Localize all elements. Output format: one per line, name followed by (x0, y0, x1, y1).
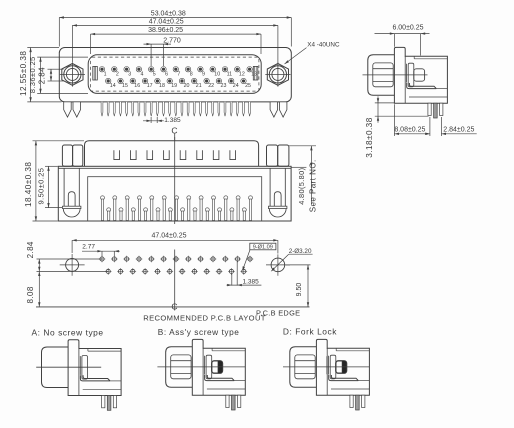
svg-text:8: 8 (190, 71, 193, 77)
svg-text:2.770: 2.770 (163, 37, 181, 44)
dimension 12.55±0.38 flange height (19, 48, 62, 102)
svg-text:4.80(5.80): 4.80(5.80) (297, 168, 306, 205)
rear view right board-lock fork (269, 168, 287, 217)
dimension 1.385 pad offset (227, 262, 262, 287)
svg-text:5: 5 (153, 71, 156, 77)
svg-text:18.40±0.38: 18.40±0.38 (24, 162, 33, 207)
svg-text:38.96±0.25: 38.96±0.25 (148, 27, 183, 34)
svg-text:17: 17 (147, 83, 153, 89)
svg-text:3.18±0.38: 3.18±0.38 (365, 117, 374, 157)
side view connector (top right) (363, 47, 448, 118)
dimension 18.40±0.38 overall depth (24, 141, 84, 221)
dimension 8.08 row to pcb edge (26, 271, 40, 307)
pcb layout right mounting hole 2 (266, 254, 290, 275)
centre line symbol below front view (171, 125, 177, 140)
svg-text:24: 24 (233, 83, 239, 89)
rear view left hex screw head (62, 145, 82, 166)
svg-text:53.04±0.38: 53.04±0.38 (151, 10, 186, 17)
svg-text:1: 1 (104, 71, 107, 77)
rear view body outline (58, 166, 291, 221)
dimension 4.80(5.80) rear height (291, 146, 312, 205)
svg-text:14: 14 (110, 83, 116, 89)
svg-text:2: 2 (116, 71, 119, 77)
front view right board-lock fork (270, 102, 287, 117)
front view right polarizing key bar (253, 66, 257, 80)
dimension 2.770 pin pitch (144, 37, 181, 66)
svg-text:8.08: 8.08 (26, 286, 35, 303)
svg-text:12: 12 (239, 71, 245, 77)
svg-text:22: 22 (208, 83, 214, 89)
svg-text:9.50±0.25: 9.50±0.25 (37, 168, 46, 205)
front view left polarizing key bar (93, 66, 98, 80)
svg-text:9: 9 (202, 71, 205, 77)
svg-text:2.77: 2.77 (82, 244, 95, 251)
svg-text:D: Fork Lock: D: Fork Lock (283, 327, 337, 337)
svg-text:21: 21 (196, 83, 202, 89)
svg-text:15: 15 (122, 83, 128, 89)
dimension 2.77 pad pitch (82, 244, 120, 256)
dimension 47.04±0.25 mounting hole span (72, 18, 278, 62)
svg-text:20: 20 (184, 83, 190, 89)
dimension 6.00±0.25 face to boss (375, 25, 430, 56)
front view left board-lock fork (64, 102, 81, 117)
svg-text:3: 3 (128, 71, 131, 77)
dimension 9.50 hole to pcb edge (286, 265, 311, 307)
svg-text:C: C (171, 125, 177, 135)
dimension 3.18±0.38 pin length (365, 96, 429, 157)
dimension 2.84 row spacing (38, 67, 64, 84)
svg-text:1.385: 1.385 (243, 278, 260, 285)
svg-text:8.08±0.25: 8.08±0.25 (394, 127, 425, 134)
note See Part NO. with head height extension (289, 146, 318, 212)
front view right jack-screw hex nut (265, 62, 290, 86)
front view pin contacts row 1 (pins 1-13) (99, 67, 257, 78)
svg-text:11: 11 (227, 71, 233, 77)
dimension 1.385 leg offset (143, 117, 181, 124)
pcb layout hole row extension lines (37, 259, 109, 271)
svg-text:X4 -40UNC: X4 -40UNC (307, 41, 340, 48)
svg-text:6.00±0.25: 6.00±0.25 (392, 25, 423, 32)
rear view vertical centre line (174, 137, 176, 224)
front view left jack-screw hex nut (60, 62, 85, 86)
svg-text:A: No screw type: A: No screw type (32, 328, 104, 338)
dimension 53.04±0.38 overall width (59, 10, 291, 46)
rear view solder tails tall row (13) (101, 196, 253, 221)
rear view body upper parting line (58, 167, 291, 169)
hole callout 2-Ø3.20 with leader (271, 248, 313, 272)
dimension 2.84±0.25 pin spacing (425, 117, 476, 136)
pcb layout left mounting hole 1 (60, 254, 85, 276)
dimension 2.84 pad row spacing (26, 241, 40, 271)
svg-text:B: Ass'y screw type: B: Ass'y screw type (158, 327, 240, 337)
thread callout X4-40UNC with leader (285, 41, 340, 64)
variant A no-screw side view (36, 340, 121, 411)
svg-text:47.04±0.25: 47.04±0.25 (152, 233, 187, 240)
front view shell D-opening outline (88, 55, 261, 94)
svg-text:6: 6 (165, 71, 168, 77)
svg-text:P.C.B EDGE: P.C.B EDGE (256, 308, 300, 317)
svg-text:2.84: 2.84 (38, 67, 47, 84)
svg-text:16: 16 (134, 83, 140, 89)
dimension 8.08±0.25 face to pin (394, 104, 430, 136)
hole callout 9-Ø1.09 boxed with leader (242, 243, 276, 271)
svg-text:7: 7 (177, 71, 180, 77)
svg-text:9-Ø1.09: 9-Ø1.09 (253, 245, 273, 251)
variant D fork lock side view (283, 339, 369, 410)
svg-text:2.84: 2.84 (26, 241, 35, 258)
svg-text:18: 18 (159, 83, 165, 89)
svg-text:23: 23 (221, 83, 227, 89)
dimension 8.36±0.25 shell height (28, 56, 88, 93)
svg-text:1.385: 1.385 (164, 117, 181, 124)
pcb layout pad holes row 2 (12) (105, 268, 247, 275)
svg-text:RECOMMENDED P.C.B LAYOUT: RECOMMENDED P.C.B LAYOUT (143, 314, 265, 323)
rear view right hex screw head (267, 145, 289, 166)
rear view solder tails short row (12) (107, 208, 247, 221)
svg-text:25: 25 (245, 83, 251, 89)
svg-text:8.36±0.25: 8.36±0.25 (28, 56, 37, 93)
rear view insulator recess (88, 177, 262, 221)
svg-text:4: 4 (141, 71, 144, 77)
front view flange plate (59, 48, 291, 102)
front view pin contacts row 2 (pins 14-25) (106, 78, 252, 89)
svg-text:13: 13 (251, 71, 257, 77)
front view shell inner dashed line (91, 57, 259, 91)
dimension 38.96±0.25 shell width (91, 27, 262, 54)
dimension 47.04±0.25 hole span on pcb (72, 233, 278, 254)
svg-text:47.04±0.25: 47.04±0.25 (149, 18, 184, 25)
rear view left board-lock fork (63, 168, 81, 217)
svg-text:19: 19 (171, 83, 177, 89)
dimension 9.50±0.25 body depth (37, 166, 62, 207)
front view solder legs (25) (101, 102, 250, 116)
svg-text:12.55±0.38: 12.55±0.38 (19, 51, 28, 96)
svg-text:2.84±0.25: 2.84±0.25 (443, 127, 474, 134)
pcb edge line (36, 306, 310, 308)
svg-text:10: 10 (214, 71, 220, 77)
variant B assembly screw side view (157, 339, 245, 410)
pcb layout vertical centre line (174, 250, 176, 311)
svg-text:9.50: 9.50 (296, 283, 303, 297)
rear view insulator slots (8) (114, 150, 236, 159)
rear view top strip with slots (85, 141, 259, 167)
svg-text:See Part NO.: See Part NO. (309, 159, 318, 212)
pcb layout pad holes row 1 (13) (99, 256, 254, 263)
